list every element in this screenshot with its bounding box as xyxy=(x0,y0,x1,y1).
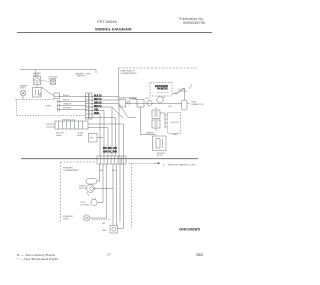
svg-text:LIGHT: LIGHT xyxy=(45,106,52,108)
svg-text:THERMO: THERMO xyxy=(130,98,138,101)
svg-text:BLACK: BLACK xyxy=(63,94,70,97)
svg-text:LIGHT: LIGHT xyxy=(63,218,70,220)
svg-text:GND: GND xyxy=(102,230,107,232)
svg-text:GN0398B5: GN0398B5 xyxy=(179,228,200,232)
svg-text:LEAD: LEAD xyxy=(56,134,62,137)
svg-text:SWITCH: SWITCH xyxy=(179,91,188,93)
svg-text:FAN MOTOR: FAN MOTOR xyxy=(157,88,168,91)
svg-text:HEATER: HEATER xyxy=(146,132,155,135)
svg-text:CONTROL: CONTROL xyxy=(80,204,91,206)
svg-text:BROWN: BROWN xyxy=(63,108,71,110)
svg-text:GN YL BR: GN YL BR xyxy=(103,150,117,153)
svg-text:MOTOR: MOTOR xyxy=(171,122,179,124)
svg-text:LEAD: LEAD xyxy=(77,134,83,137)
svg-text:BLK: BLK xyxy=(169,106,174,108)
svg-text:ORANGE: ORANGE xyxy=(63,103,72,106)
svg-text:COMPARTMENT: COMPARTMENT xyxy=(121,72,138,75)
svg-text:GN: GN xyxy=(102,223,106,225)
svg-text:FRT18B4A: FRT18B4A xyxy=(97,20,118,24)
svg-text:HTR: HTR xyxy=(146,98,151,100)
svg-text:COMPARTMENT: COMPARTMENT xyxy=(63,169,80,172)
svg-text:* — Not Illustrated Parts: * — Not Illustrated Parts xyxy=(17,257,59,261)
svg-text:DEFROST HEATER & LIMIT: DEFROST HEATER & LIMIT xyxy=(168,164,197,167)
svg-text:CAPACITOR: CAPACITOR xyxy=(192,103,204,106)
svg-text:CO: CO xyxy=(162,97,166,99)
svg-text:SW: SW xyxy=(90,138,93,140)
svg-text:5995336790: 5995336790 xyxy=(183,21,205,25)
svg-text:CORD: CORD xyxy=(33,75,40,77)
svg-text:SWITCH: SWITCH xyxy=(77,76,86,78)
svg-text:LIGHT: LIGHT xyxy=(20,88,26,90)
svg-text:WH: WH xyxy=(112,170,116,172)
svg-text:WHITE: WHITE xyxy=(63,100,70,102)
svg-text:5B51: 5B51 xyxy=(196,253,204,257)
svg-text:RED: RED xyxy=(94,112,99,115)
svg-text:ACLE: ACLE xyxy=(157,154,163,157)
svg-text:COMP.: COMP. xyxy=(172,134,179,136)
svg-text:SCREW: SCREW xyxy=(49,79,57,81)
svg-text:MOTOR: MOTOR xyxy=(79,188,87,190)
svg-text:TERM BLOCK: TERM BLOCK xyxy=(62,119,76,121)
svg-text:77: 77 xyxy=(107,253,111,257)
svg-text:WIRING DIAGRAM: WIRING DIAGRAM xyxy=(95,26,132,31)
